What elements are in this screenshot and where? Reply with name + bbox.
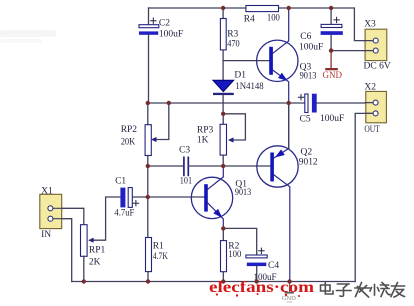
wire: top supply bus (right segment to X3 pin 1) [279, 8, 374, 41]
svg-text:9013: 9013 [300, 72, 317, 82]
svg-text:100: 100 [228, 250, 241, 260]
svg-text:1K: 1K [197, 135, 209, 145]
svg-text:R1: R1 [153, 242, 164, 252]
svg-text:RP3: RP3 [197, 125, 214, 135]
svg-text:C4: C4 [268, 261, 279, 271]
子 [337, 284, 352, 296]
svg-text:C2: C2 [159, 19, 170, 29]
resistor R3 [220, 8, 240, 61]
svg-text:100uF: 100uF [159, 29, 183, 39]
wire: output rail y=103 (RP2 node to C5) [148, 102, 305, 104]
svg-text:C3: C3 [179, 146, 190, 156]
wire: C1 to Q1 base [132, 196, 204, 198]
resistor R2 [221, 228, 242, 281]
junction: C3 right / RP3 bottom / Q1 collector / Q2 base [221, 164, 225, 168]
svg-text:GND: GND [282, 295, 296, 302]
potentiometer RP3 [197, 114, 227, 166]
svg-text:100uF: 100uF [299, 42, 323, 52]
junction: Q2 collector / ground bus / GND [287, 279, 291, 283]
wire: C6 node to X3 pin 2 [331, 50, 373, 52]
junction: C6 / supply bus [329, 6, 333, 10]
ghost watermark top-left [0, 30, 56, 43]
svg-text:RP1: RP1 [89, 246, 106, 256]
capacitor C4 [246, 248, 279, 282]
junction: R3 top / supply bus [221, 6, 225, 10]
junction: C6 bottom / X3 pin 2 / GND [329, 48, 333, 52]
svg-text:101: 101 [180, 177, 193, 187]
wire: C5 to X2 pin 1 [317, 102, 373, 104]
transistor Q2 9012 [257, 103, 318, 282]
svg-text:D1: D1 [234, 70, 246, 80]
友 [391, 283, 405, 298]
node: D1 cathode / RP3 [223, 114, 245, 143]
svg-text:X3: X3 [364, 19, 376, 29]
junction: RP2 bottom / C3 left [146, 164, 150, 168]
svg-text:4.7K: 4.7K [153, 252, 168, 262]
svg-text:OUT: OUT [364, 125, 380, 135]
junction: RP1 bottom / ground bus [82, 279, 86, 283]
watermark chinese 电子发烧友 [321, 282, 405, 297]
capacitor C2 [139, 8, 183, 103]
svg-text:GND: GND [323, 70, 343, 80]
wire: C3 to Q1 collector node [189, 165, 223, 167]
烧 [370, 283, 390, 297]
svg-text:R4: R4 [244, 15, 255, 25]
junction: Q3 emitter / output rail [287, 101, 291, 105]
junction: R1 bottom / ground bus [146, 279, 150, 283]
wire: Q2 base wire [223, 165, 270, 167]
transistor Q1 9013 [191, 166, 251, 228]
junction: R2 bottom / ground bus [221, 279, 225, 283]
capacitor C6 [299, 8, 343, 52]
svg-text:R3: R3 [227, 29, 238, 39]
svg-text:1N4148: 1N4148 [235, 82, 264, 92]
wire: top supply bus (left segment) [149, 7, 246, 9]
svg-text:Q2: Q2 [301, 147, 313, 157]
junction: Q1 emitter / R2 / C4 [221, 226, 225, 230]
junction: D1 cathode / RP3 top [221, 112, 225, 116]
svg-text:C6: C6 [300, 32, 311, 42]
connector X1 IN [40, 186, 63, 240]
junction: C2 bottom / RP2 top [146, 101, 150, 105]
svg-text:470: 470 [227, 39, 240, 49]
svg-text:100: 100 [267, 13, 280, 23]
svg-text:C5: C5 [300, 114, 311, 124]
ground symbol GND (at X3) [323, 51, 343, 80]
diode D1 1N4148 [213, 61, 264, 114]
resistor R1 [146, 238, 169, 282]
svg-text:20K: 20K [121, 137, 136, 147]
ground symbol GND (bottom) [282, 282, 296, 303]
wire: X1 pin1 to RP1 top [62, 208, 84, 224]
电 [321, 282, 334, 294]
svg-text:4.7uF: 4.7uF [114, 208, 134, 218]
wire: base bias node to C3 [148, 165, 184, 167]
junction: RP2 wiper / output rail [167, 101, 171, 105]
potentiometer RP2 [121, 103, 169, 238]
wire: R3/D1 node to Q3 base [223, 60, 269, 62]
wire: X1 pin2 to ground bus [62, 219, 72, 282]
svg-text:100uF: 100uF [320, 114, 344, 124]
connector X2 OUT [364, 82, 386, 135]
svg-text:9013: 9013 [235, 188, 252, 198]
junction: C1 right / Q1 base / R1 top [146, 195, 150, 199]
watermark elecfans.com [209, 279, 314, 297]
svg-text:RP2: RP2 [121, 125, 138, 135]
svg-text:IN: IN [41, 230, 51, 240]
svg-text:elecfans·com: elecfans·com [209, 279, 314, 296]
capacitor C1 [114, 176, 138, 218]
capacitor C3 [179, 146, 192, 187]
resistor R4 [244, 6, 280, 25]
svg-text:DC 6V: DC 6V [364, 62, 391, 72]
发 [355, 283, 370, 298]
connector X3 DC6V [364, 19, 391, 71]
svg-text:2K: 2K [89, 257, 101, 267]
junction: Q3 collector / supply bus [287, 6, 291, 10]
junction: C4 bottom / ground bus [255, 279, 259, 283]
svg-text:C1: C1 [115, 176, 126, 186]
potentiometer RP1 [81, 197, 120, 282]
transistor Q3 9013 [257, 8, 317, 103]
svg-text:9012: 9012 [299, 157, 318, 167]
wire: ground bus [72, 281, 356, 283]
wire: X2 pin 2 to ground bus [355, 113, 373, 281]
capacitor C5 [298, 94, 344, 125]
wire: Q1 emitter node to R2 / C4 [223, 228, 256, 255]
